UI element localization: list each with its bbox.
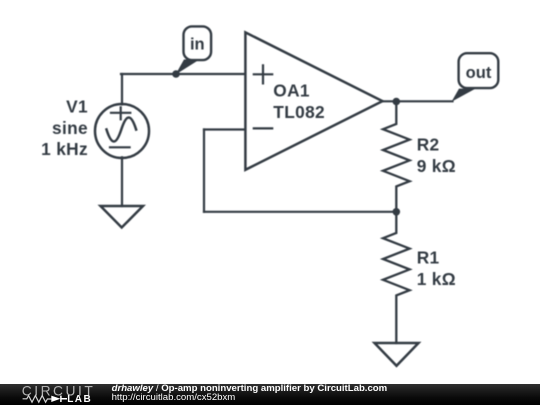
svg-text:out: out	[466, 64, 492, 82]
svg-text:9 kΩ: 9 kΩ	[417, 156, 456, 176]
svg-text:R1: R1	[417, 248, 440, 268]
svg-text:TL082: TL082	[273, 102, 325, 122]
V1 minus sign	[110, 146, 130, 148]
logo resistor squiggle and diode	[23, 396, 52, 403]
node feedback junction dot	[393, 208, 401, 216]
wire V1 bottom to ground	[121, 157, 123, 206]
resistor R1	[383, 212, 410, 343]
banner url line	[112, 392, 236, 403]
svg-text:1 kΩ: 1 kΩ	[417, 269, 456, 289]
svg-text:OA1: OA1	[273, 81, 310, 101]
svg-text:in: in	[190, 36, 205, 54]
footer banner	[0, 384, 540, 405]
op-amp OA1 triangle	[245, 32, 382, 169]
voltage source V1 circle	[95, 104, 149, 158]
flag pointer in	[176, 60, 200, 75]
wire op-amp output to out flag	[382, 100, 453, 102]
V1 sine symbol	[107, 118, 137, 142]
svg-text:R2: R2	[417, 135, 440, 155]
wire feedback bottom horizontal	[204, 211, 396, 213]
node out junction dot	[393, 98, 401, 106]
wire node-in horizontal	[121, 73, 244, 75]
op-amp plus input symbol	[254, 65, 272, 83]
resistor R2	[383, 102, 410, 212]
ground under V1	[101, 206, 144, 228]
wire V1 top vertical	[121, 74, 123, 104]
flag box out	[459, 53, 499, 88]
svg-text:1 kHz: 1 kHz	[41, 139, 88, 159]
svg-text:LAB: LAB	[67, 394, 92, 405]
wire feedback vertical	[203, 130, 205, 212]
svg-text:sine: sine	[52, 118, 88, 138]
flag box in	[184, 26, 212, 60]
ground under R1	[375, 343, 419, 366]
op-amp minus input symbol	[254, 127, 272, 129]
V1 plus sign	[111, 107, 130, 119]
wire inverting input stub	[204, 128, 244, 130]
node in junction dot	[172, 70, 180, 78]
CircuitLab logo	[0, 384, 110, 405]
banner credit line	[112, 383, 388, 394]
flag pointer out	[452, 89, 476, 102]
svg-text:V1: V1	[66, 97, 88, 117]
